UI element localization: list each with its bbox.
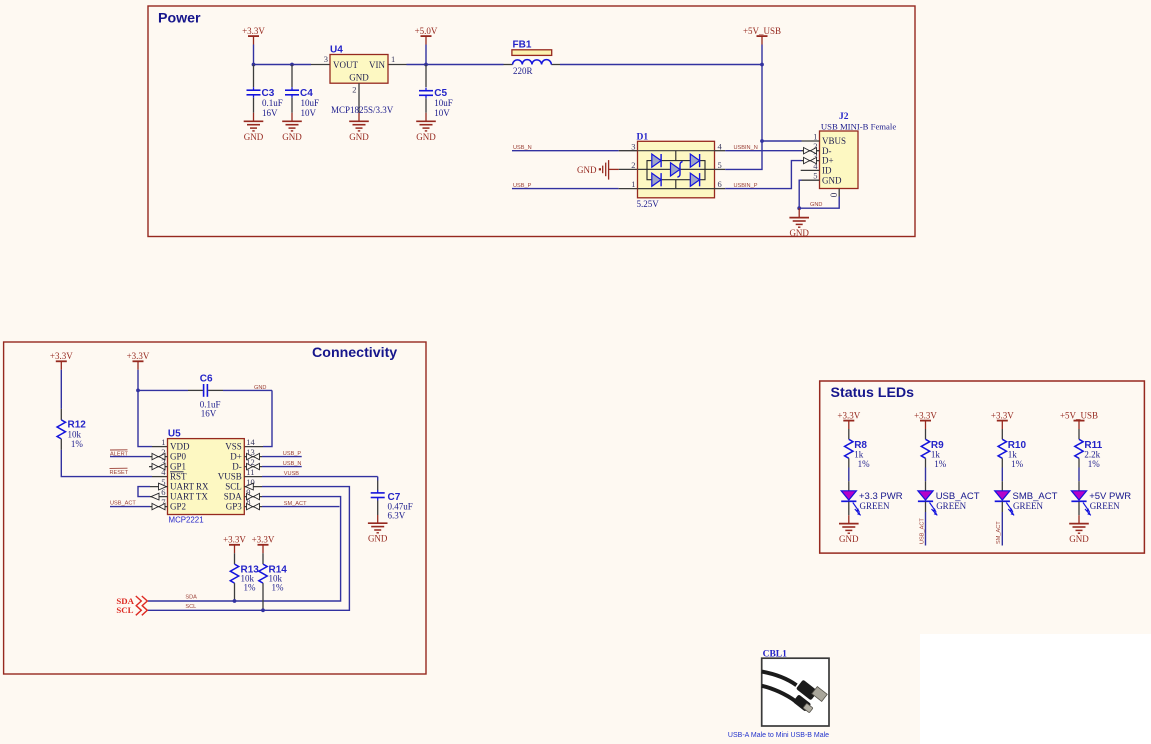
svg-text:GND: GND [1069, 534, 1089, 544]
svg-text:1%: 1% [934, 459, 947, 469]
svg-text:5: 5 [813, 171, 817, 181]
svg-text:Status LEDs: Status LEDs [831, 385, 915, 401]
svg-text:3: 3 [324, 54, 328, 64]
svg-text:2: 2 [631, 160, 635, 170]
svg-text:1: 1 [161, 437, 165, 447]
svg-text:VSS: VSS [225, 442, 242, 452]
svg-text:+5V_USB: +5V_USB [1060, 410, 1098, 420]
svg-text:USBIN_P: USBIN_P [734, 183, 758, 189]
svg-text:USBIN_N: USBIN_N [734, 145, 758, 151]
svg-text:USB-A Male to Mini USB-B Male: USB-A Male to Mini USB-B Male [728, 732, 829, 739]
svg-text:GP3: GP3 [226, 502, 243, 512]
svg-text:SCL: SCL [225, 482, 242, 492]
svg-text:GND: GND [822, 175, 842, 185]
svg-text:USB MINI-B Female: USB MINI-B Female [821, 121, 896, 131]
svg-text:1%: 1% [244, 583, 257, 593]
svg-text:1: 1 [631, 179, 635, 189]
svg-text:10uF: 10uF [434, 98, 453, 108]
svg-text:FB1: FB1 [513, 40, 532, 51]
svg-text:GND: GND [349, 73, 369, 83]
svg-text:UART RX: UART RX [170, 482, 209, 492]
svg-text:1: 1 [813, 131, 817, 141]
svg-text:VBUS: VBUS [822, 136, 846, 146]
svg-text:5.25V: 5.25V [637, 199, 660, 209]
svg-text:USB_N: USB_N [283, 461, 302, 467]
svg-text:SDA: SDA [224, 492, 243, 502]
svg-text:GP2: GP2 [170, 502, 186, 512]
svg-text:SCL: SCL [185, 604, 196, 610]
svg-text:SCL: SCL [116, 605, 133, 615]
svg-text:GP1: GP1 [170, 462, 186, 472]
svg-text:+3.3V: +3.3V [252, 535, 275, 545]
svg-text:5: 5 [718, 160, 722, 170]
svg-text:USB_ACT: USB_ACT [919, 518, 925, 544]
svg-text:+3.3V: +3.3V [127, 351, 150, 361]
svg-text:14: 14 [246, 437, 255, 447]
svg-text:RST: RST [170, 472, 187, 482]
svg-text:1%: 1% [71, 439, 84, 449]
svg-text:GND: GND [282, 132, 302, 142]
svg-text:RESET: RESET [110, 470, 129, 476]
svg-text:GND: GND [244, 132, 264, 142]
svg-text:D-: D- [822, 146, 832, 156]
svg-text:Connectivity: Connectivity [312, 345, 397, 361]
svg-text:VOUT: VOUT [333, 60, 358, 70]
svg-text:0: 0 [828, 193, 838, 198]
svg-text:GND: GND [810, 202, 822, 208]
svg-text:GREEN: GREEN [936, 501, 966, 511]
svg-text:+3.3V: +3.3V [837, 410, 860, 420]
svg-text:2: 2 [352, 84, 356, 94]
svg-text:D-: D- [232, 462, 242, 472]
svg-text:10V: 10V [434, 108, 450, 118]
svg-text:USB_P: USB_P [283, 451, 302, 457]
svg-text:UART TX: UART TX [170, 492, 208, 502]
svg-text:U5: U5 [168, 429, 181, 440]
svg-text:16V: 16V [201, 408, 217, 418]
svg-text:USB_ACT: USB_ACT [110, 501, 136, 507]
svg-text:6: 6 [718, 179, 722, 189]
svg-text:VUSB: VUSB [284, 471, 300, 477]
svg-text:GREEN: GREEN [860, 501, 890, 511]
svg-text:GND: GND [789, 228, 809, 238]
svg-text:VIN: VIN [369, 60, 385, 70]
svg-text:MCP2221: MCP2221 [169, 516, 204, 525]
svg-text:10V: 10V [301, 108, 317, 118]
svg-text:1%: 1% [858, 459, 871, 469]
svg-text:GREEN: GREEN [1013, 501, 1043, 511]
svg-text:1%: 1% [1011, 459, 1024, 469]
svg-text:C6: C6 [200, 374, 213, 385]
svg-text:GREEN: GREEN [1090, 501, 1120, 511]
svg-text:MCP1825S/3.3V: MCP1825S/3.3V [331, 105, 394, 115]
svg-text:GND: GND [254, 385, 266, 391]
svg-text:VDD: VDD [170, 442, 190, 452]
svg-text:D+: D+ [230, 452, 242, 462]
svg-text:16V: 16V [262, 108, 278, 118]
svg-text:+3.3V: +3.3V [223, 535, 246, 545]
svg-text:SDA: SDA [185, 595, 197, 601]
svg-text:1%: 1% [1088, 459, 1101, 469]
svg-text:3: 3 [631, 141, 635, 151]
svg-text:D+: D+ [822, 156, 834, 166]
svg-text:Power: Power [158, 10, 201, 26]
svg-text:10uF: 10uF [301, 98, 320, 108]
svg-text:+3.3V: +3.3V [914, 410, 937, 420]
svg-text:SM_ACT: SM_ACT [284, 501, 307, 507]
svg-text:+3.3V: +3.3V [991, 410, 1014, 420]
svg-text:+5.0V: +5.0V [415, 26, 438, 36]
svg-text:U4: U4 [330, 45, 343, 56]
svg-text:GND: GND [577, 165, 597, 175]
svg-text:GND: GND [416, 132, 436, 142]
svg-text:GP0: GP0 [170, 452, 187, 462]
svg-text:ID: ID [822, 166, 832, 176]
svg-text:6.3V: 6.3V [388, 510, 406, 520]
svg-text:GND: GND [368, 534, 388, 544]
svg-text:0.1uF: 0.1uF [262, 98, 283, 108]
svg-text:220R: 220R [513, 66, 533, 76]
svg-text:+5V_USB: +5V_USB [743, 26, 781, 36]
svg-text:1: 1 [391, 54, 395, 64]
svg-text:GND: GND [839, 534, 859, 544]
svg-text:1%: 1% [272, 583, 285, 593]
svg-text:+3.3V: +3.3V [242, 26, 265, 36]
svg-text:VUSB: VUSB [218, 472, 242, 482]
svg-text:GND: GND [349, 132, 369, 142]
svg-text:SM_ACT: SM_ACT [996, 521, 1002, 544]
svg-text:+3.3V: +3.3V [50, 351, 73, 361]
